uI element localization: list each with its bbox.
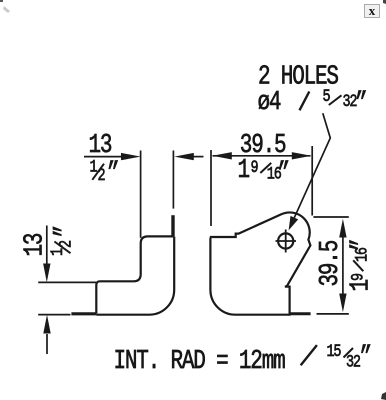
left view: bottom flange tab (edge-on)	[71, 312, 96, 315]
scan speck top-left corner	[0, 0, 3, 2]
dim 39.5 right: top extension line	[313, 216, 348, 218]
svg-text:”: ”	[107, 159, 118, 189]
svg-text:”: ”	[355, 89, 366, 119]
fraction 5/32 slash	[329, 95, 342, 105]
arrowhead dim 13 left lower	[43, 315, 50, 334]
svg-text:9: 9	[348, 273, 368, 281]
svg-text:”: ”	[348, 240, 378, 251]
fraction 15/32 slash	[344, 348, 354, 358]
dim 13 top: right extension line	[172, 151, 174, 209]
dim 13 left: lower extension line	[38, 314, 70, 316]
hole circle	[278, 233, 293, 248]
dim 39.5 right: dimension line	[342, 238, 344, 294]
separator slash	[300, 92, 310, 111]
svg-text:ø4: ø4	[258, 88, 282, 118]
svg-text:13: 13	[20, 234, 50, 257]
svg-text:39.5: 39.5	[316, 241, 346, 287]
arrowhead leader at hole	[289, 216, 299, 231]
scan smudge top-left	[3, 6, 10, 13]
svg-text:2: 2	[98, 165, 106, 185]
arrowhead dim 39.5 right upper	[339, 219, 346, 238]
arrowhead dim 39.5 top left	[212, 152, 232, 159]
note separator slash	[301, 345, 317, 365]
dim 39.5 top: left extension line	[210, 150, 212, 226]
dim 39.5 top: right extension line	[311, 146, 313, 216]
fraction 9/16 slash	[260, 163, 271, 173]
leader line from hole note	[294, 113, 330, 217]
svg-text:15: 15	[327, 342, 342, 362]
dim 13 left: upper extension line	[38, 281, 96, 283]
right view: gusset outline	[210, 212, 311, 314]
arrowhead dim 13 top left	[121, 153, 141, 160]
svg-text:”: ”	[51, 226, 81, 237]
svg-text:1: 1	[238, 156, 250, 186]
scan smudge bottom-right corner	[381, 392, 386, 400]
dim 39.5 top: dimension line	[213, 155, 311, 157]
dim 13 top: left dimension line tail	[84, 156, 122, 158]
svg-text:5: 5	[323, 86, 331, 106]
dim 13 top: right dimension line tail	[193, 156, 204, 158]
dim 13 top: left extension line	[140, 151, 142, 238]
scan speck top-right corner	[383, 0, 386, 4]
right view: bottom flange tab (edge-on)	[290, 312, 311, 315]
dim 13 left: upper dimension line	[46, 226, 48, 265]
arrowhead dim 39.5 right lower	[339, 294, 346, 313]
dim 39.5 right: bottom extension line	[317, 313, 349, 315]
arrowhead dim 39.5 top right	[292, 152, 312, 159]
dim 13 left: lower dimension line tail	[46, 334, 48, 354]
arrowhead dim 13 left upper	[43, 264, 50, 283]
svg-text:INT. RAD = 12mm: INT. RAD = 12mm	[114, 347, 286, 377]
arrowhead dim 13 top right	[174, 153, 194, 160]
svg-text:”: ”	[278, 159, 289, 189]
svg-text:2: 2	[56, 240, 76, 248]
close button	[364, 4, 380, 18]
hole crosshair centerlines	[276, 230, 297, 253]
left view: outer contour (bottom face, outer radius, right face)	[96, 236, 174, 314]
left view: top flange tab (edge-on)	[171, 215, 174, 236]
fraction 1/2 slash	[92, 164, 104, 180]
fraction 1 9/16 rotated (right dim)	[346, 240, 378, 292]
fraction 1/2 rotated (left dim)	[48, 226, 82, 256]
svg-text:9: 9	[251, 158, 259, 178]
svg-text:”: ”	[360, 343, 371, 373]
left view: inner stepped contour (top face, inner radius, end face)	[96, 236, 174, 313]
